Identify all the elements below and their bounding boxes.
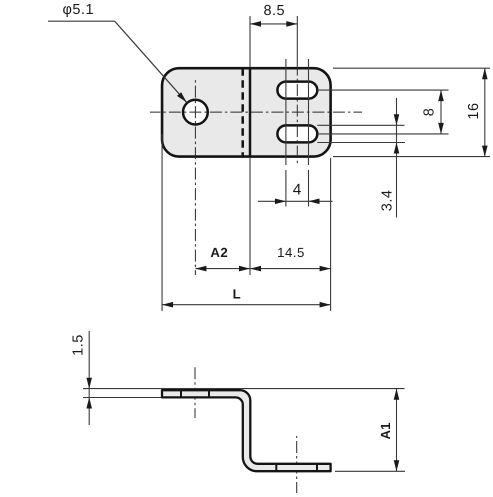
dimension A1 — [396, 389, 398, 472]
tick: slot left edge on bottom flange — [275, 464, 277, 471]
svg-text:φ5.1: φ5.1 — [63, 2, 95, 18]
dimension 8.5 — [250, 23, 297, 25]
svg-text:14.5: 14.5 — [277, 245, 305, 260]
svg-text:8.5: 8.5 — [263, 3, 285, 19]
extension line: plate top edge extended right — [333, 67, 490, 69]
extension line: 8.5 left (bend line extended up) — [249, 16, 251, 67]
dimension 16 — [484, 68, 486, 156]
extension line: L left (plate left edge extended down) — [161, 134, 163, 311]
dimension 8 — [440, 90, 442, 134]
hole phi5.1 — [183, 100, 208, 125]
dimension 1.5 — [88, 331, 90, 425]
plate (top view) — [162, 68, 331, 156]
bracket profile (side view) — [162, 390, 331, 471]
tick: hole right edge on top flange — [208, 390, 210, 397]
tick: hole left edge on top flange — [180, 390, 182, 397]
extension line: slot left arc center vertical — [285, 59, 287, 165]
dimension A2 — [195, 268, 250, 270]
svg-text:16: 16 — [466, 102, 482, 119]
svg-text:3.4: 3.4 — [380, 190, 396, 212]
extension line: bottom flange bottom surface extended right — [335, 470, 405, 472]
svg-text:1.5: 1.5 — [71, 334, 87, 356]
svg-text:8: 8 — [422, 108, 438, 116]
extension line: top flange bottom surface extended left — [83, 397, 161, 399]
centerline: vertical slot centerline inside plate — [296, 67, 298, 166]
centerline: hole centerline in side view — [194, 365, 196, 418]
leader phi5.1 — [48, 21, 187, 102]
slot bottom — [277, 125, 317, 142]
svg-text:L: L — [233, 286, 241, 301]
centerline: slot centerline in side view — [296, 436, 298, 493]
tick: slot right edge on bottom flange — [316, 464, 318, 471]
extension line: bottom slot center extended right — [317, 133, 448, 135]
extension line: A2/14.5 bend line extended down — [249, 158, 251, 275]
slot top — [277, 82, 317, 99]
svg-text:A1: A1 — [378, 423, 393, 440]
dimension 4 — [258, 200, 333, 202]
extension line: L/14.5 right (plate right edge extended down) — [330, 158, 332, 311]
extension line: plate bottom edge extended right — [333, 156, 490, 158]
extension line: 8.5 right (slot centerline extended up) — [296, 16, 298, 67]
extension line: bottom slot top edge extended right — [317, 124, 404, 126]
bend line (dashed) — [241, 68, 244, 156]
extension line: top surface extended (left and right to A1) — [83, 388, 405, 390]
svg-text:4: 4 — [293, 181, 302, 198]
dimension L — [162, 304, 331, 306]
dimension 14.5 — [250, 268, 331, 270]
extension line: top slot center extended right — [317, 89, 448, 91]
svg-text:A2: A2 — [210, 245, 228, 260]
dimension 3.4 — [396, 98, 398, 218]
extension line: bottom slot bottom edge extended right — [317, 142, 405, 144]
bend line (solid edge) — [249, 69, 252, 155]
extension line: slot right arc center vertical — [308, 59, 310, 165]
centerline: horizontal plate centerline — [150, 111, 362, 113]
centerline: vertical hole centerline (extends down as A2 extension) — [194, 80, 196, 275]
